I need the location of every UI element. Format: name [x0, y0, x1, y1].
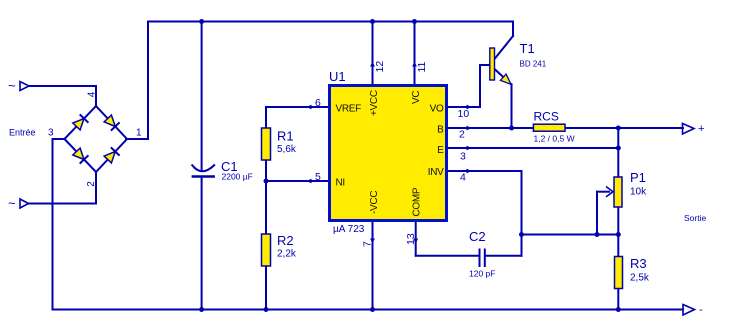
svg-text:2: 2 [459, 129, 465, 141]
junction feedback / right vertical [616, 232, 621, 237]
wire wiper vertical [596, 192, 598, 235]
svg-text:VC: VC [411, 91, 422, 104]
wire top input horizontal [29, 85, 96, 87]
wire INV pin 4 [448, 170, 522, 172]
svg-text:U1: U1 [329, 69, 346, 84]
wire VREF pin 6 [266, 106, 328, 108]
svg-text:-: - [699, 304, 703, 316]
output connector minus [683, 305, 695, 316]
svg-text:6: 6 [315, 97, 321, 109]
wire R1 R2 vertical [265, 107, 267, 310]
wire bridge bottom-right side [96, 139, 127, 172]
svg-text:-VCC: -VCC [369, 191, 380, 214]
svg-text:11: 11 [416, 61, 428, 72]
svg-text:10: 10 [458, 108, 470, 120]
wire VO pin 10 [448, 106, 480, 108]
wire top rail [148, 21, 513, 23]
wire node1 horizontal [126, 138, 148, 140]
wire bridge top-left side [65, 106, 97, 139]
svg-text:2: 2 [86, 181, 97, 187]
svg-text:µA 723: µA 723 [333, 224, 365, 235]
junction wiper / feedback [595, 232, 600, 237]
svg-text:4: 4 [460, 172, 466, 184]
capacitor C2 [480, 249, 485, 268]
svg-text:1: 1 [136, 128, 142, 139]
resistor RCS [533, 124, 565, 131]
wire collector vertical [512, 22, 514, 37]
svg-text:5,6k: 5,6k [277, 144, 297, 155]
resistor R2 [262, 234, 271, 266]
junction top rail / C1 [199, 19, 204, 24]
wire VC pin 11 [414, 22, 416, 85]
svg-text:B: B [437, 125, 444, 136]
pin connection arrows [307, 62, 472, 244]
transistor T1 [495, 22, 514, 129]
resistor R3 [615, 257, 623, 289]
svg-text:T1: T1 [520, 41, 535, 56]
svg-text:~: ~ [8, 78, 16, 93]
svg-text:R1: R1 [277, 129, 294, 144]
wire E pin 3 [448, 147, 618, 149]
svg-text:R3: R3 [630, 256, 647, 271]
wire VO vertical to base [479, 65, 481, 107]
output connector plus [683, 124, 695, 135]
wire emitter vertical [511, 85, 513, 129]
pin 13 arrow [413, 239, 418, 244]
potentiometer P1 [614, 177, 622, 207]
svg-text:INV: INV [428, 167, 444, 178]
wire bottom input horizontal [29, 203, 97, 205]
junction E wire / right vertical [616, 146, 621, 151]
wire C1 branch lower [201, 177, 203, 310]
svg-text:R2: R2 [277, 233, 294, 248]
diode bridge top-left (3 to 4) [73, 114, 89, 129]
svg-text:VREF: VREF [336, 104, 362, 115]
svg-text:+VCC: +VCC [369, 90, 380, 116]
pin 4 arrow [467, 169, 472, 174]
svg-text:4: 4 [87, 91, 98, 97]
svg-text:3: 3 [48, 128, 54, 139]
svg-text:2200 µF: 2200 µF [222, 172, 253, 182]
wire C1 branch upper [201, 22, 203, 171]
pin 6 arrow [307, 105, 312, 110]
wire rail left vertical to node 1 [147, 22, 149, 140]
transistor T1 emitter arrow [500, 74, 511, 84]
svg-text:NI: NI [336, 178, 345, 189]
wire B pin 2 through RCS to + output [448, 127, 683, 129]
wire wiper horizontal [597, 191, 609, 193]
U1 pin names [336, 90, 445, 216]
pin 10 arrow [467, 105, 472, 110]
wire right vertical through P1 R3 [617, 128, 619, 310]
svg-text:5: 5 [315, 171, 321, 183]
wire INV vertical [521, 171, 523, 256]
svg-text:RCS: RCS [534, 110, 559, 124]
capacitor C1 [192, 165, 215, 177]
wire bridge top-right side [96, 106, 127, 139]
svg-text:+: + [698, 123, 704, 135]
transistor T1 base bar [490, 48, 495, 80]
diode bridge bottom-right (2 to 1) [104, 147, 120, 163]
junction bottom rail / C1 [199, 307, 204, 312]
svg-text:2,5k: 2,5k [630, 273, 650, 284]
pin 5 arrow [307, 179, 312, 184]
wire feedback horizontal [522, 234, 619, 236]
junction R1-R2 / NI [264, 179, 269, 184]
wire C2 to INV vertical [486, 255, 522, 257]
wire collector diagonal [495, 36, 514, 59]
svg-text:7: 7 [362, 241, 374, 247]
wire left drop vertical [52, 139, 54, 310]
junction RCS out / right vertical [616, 126, 621, 131]
wire COMP to C2 [416, 255, 479, 257]
wire NI pin 5 [266, 180, 328, 182]
junction bottom rail / R3 [616, 307, 621, 312]
junction top rail / pin 12 [370, 19, 375, 24]
pin 3 arrow [467, 146, 472, 151]
svg-text:3: 3 [460, 151, 466, 163]
junction bottom rail / R2 [264, 307, 269, 312]
pin 12 arrow [370, 62, 375, 67]
svg-text:Sortie: Sortie [684, 213, 706, 223]
wire node 2 vertical [95, 172, 97, 204]
svg-text:1,2 / 0,5 W: 1,2 / 0,5 W [534, 134, 575, 144]
wire input top vertical to node 4 [95, 86, 97, 106]
resistor R1 [262, 128, 271, 160]
wire bridge bottom-left side [65, 139, 97, 172]
wire base horizontal [480, 64, 490, 66]
wire +VCC pin 12 [372, 22, 374, 85]
wire bottom rail [53, 309, 684, 311]
diode bridge bottom-left (3 to 2) [73, 148, 89, 164]
diode bridge top-right (4 to 1) [104, 115, 120, 131]
junction top rail / pin 11 [412, 19, 417, 24]
svg-text:C2: C2 [469, 229, 486, 244]
wire -VCC pin 7 [372, 222, 374, 310]
pin 2 arrow [467, 126, 472, 131]
svg-text:12: 12 [374, 61, 386, 73]
junction INV / feedback [519, 232, 524, 237]
svg-text:~: ~ [8, 196, 16, 211]
svg-text:120 pF: 120 pF [469, 269, 495, 279]
wire emitter diagonal [495, 69, 512, 85]
svg-text:10k: 10k [630, 187, 647, 198]
svg-text:VO: VO [430, 104, 444, 115]
P1 wiper arrow [606, 187, 613, 197]
svg-text:P1: P1 [630, 170, 646, 185]
op-amp regulator U1 body [330, 86, 447, 221]
svg-text:2,2k: 2,2k [277, 249, 297, 260]
U1 pin numbers [315, 61, 469, 247]
svg-text:Entrée: Entrée [9, 128, 36, 138]
pin 11 arrow [412, 62, 417, 67]
pin 7 arrow [370, 239, 375, 244]
svg-text:E: E [437, 145, 444, 156]
junction bottom rail / pin 7 [370, 307, 375, 312]
wire node3 to left drop [53, 138, 65, 140]
svg-text:BD 241: BD 241 [520, 60, 547, 69]
svg-text:COMP: COMP [412, 187, 423, 216]
junction emitter / B wire [509, 126, 514, 131]
wire COMP pin 13 vertical [415, 222, 417, 256]
